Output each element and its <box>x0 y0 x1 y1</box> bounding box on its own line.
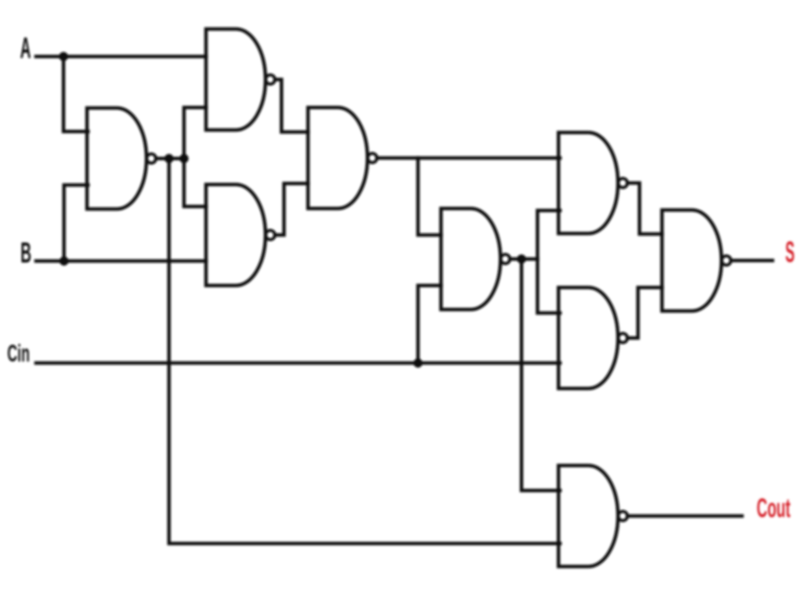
svg-text:Cin: Cin <box>7 341 29 368</box>
wire U1 out up to U2 input and down to U3 input <box>184 108 206 207</box>
wire U5 out up to U6 input and down to U7 input <box>538 211 561 314</box>
svg-text:B: B <box>21 236 32 269</box>
svg-text:A: A <box>20 33 31 66</box>
node Cin junction dot <box>413 358 422 367</box>
wire U7 output to U8 bottom input <box>628 288 663 339</box>
NAND gate U1 <box>87 108 156 209</box>
wire input A horizontal <box>36 55 206 59</box>
node A junction dot <box>59 52 68 61</box>
wire A to U1 top input <box>64 57 89 132</box>
NAND gate U4 <box>308 108 377 209</box>
NAND gate U6 <box>559 133 628 234</box>
node B junction dot <box>59 256 68 265</box>
svg-text:S: S <box>785 235 794 268</box>
wire Cin up to U5 bottom input <box>418 286 441 364</box>
wire B to U1 bottom input <box>64 185 88 261</box>
wire U5 output <box>510 257 538 261</box>
NAND gate U2 <box>206 29 275 130</box>
wire input Cin horizontal to U7 bottom input <box>36 361 560 365</box>
wire input B horizontal <box>36 259 206 263</box>
wire branch down to U5 top input <box>418 158 441 235</box>
wire U2 output to U4 top input <box>275 80 308 133</box>
node U1 output dot 1 <box>164 154 173 163</box>
wire U9 output Cout <box>628 514 743 518</box>
NAND gate U5 <box>441 209 510 310</box>
NAND gate U8 <box>662 210 731 311</box>
wire U3 output to U4 bottom input <box>275 184 308 236</box>
wire U5 out long run down to U9 top input <box>522 259 561 491</box>
wire U8 output S <box>731 259 773 263</box>
NAND gate U9 <box>559 466 628 567</box>
wire U1 out long run down to U9 bottom input <box>169 159 560 544</box>
NAND gate U7 <box>559 288 628 389</box>
wire U4 output to U6 top input <box>377 156 560 160</box>
wire U6 output to U8 top input <box>628 183 663 234</box>
svg-text:Cout: Cout <box>757 492 791 523</box>
node U1 output dot 2 <box>179 154 188 163</box>
NAND gate U3 <box>206 185 275 286</box>
wire U1 output <box>156 157 184 161</box>
node U5 output dot <box>517 254 526 263</box>
